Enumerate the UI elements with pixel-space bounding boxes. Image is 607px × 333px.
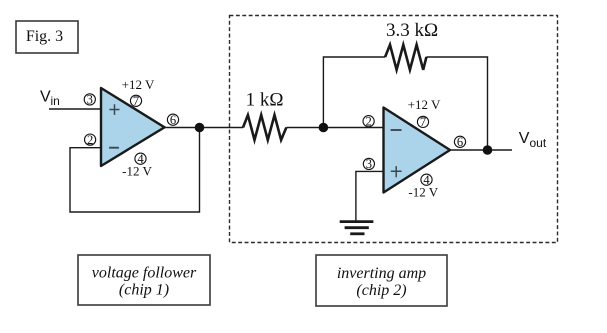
svg-text:3: 3 [87,93,93,107]
svg-text:+12 V: +12 V [408,97,441,112]
svg-text:voltage follower: voltage follower [92,265,197,282]
svg-text:3.3 kΩ: 3.3 kΩ [386,20,438,41]
svg-text:+12 V: +12 V [122,77,155,92]
svg-text:1 kΩ: 1 kΩ [246,90,284,111]
svg-text:Fig. 3: Fig. 3 [26,28,63,45]
svg-text:6: 6 [170,113,176,127]
svg-text:6: 6 [457,135,463,149]
svg-text:-12 V: -12 V [122,164,152,179]
svg-text:V: V [40,89,51,106]
svg-text:out: out [530,136,547,150]
svg-text:in: in [51,94,60,108]
svg-text:inverting amp: inverting amp [337,265,426,282]
svg-text:3: 3 [366,157,372,171]
svg-text:-12 V: -12 V [408,184,438,199]
svg-text:(chip 2): (chip 2) [356,282,406,299]
svg-text:7: 7 [133,94,139,108]
svg-text:V: V [519,130,530,147]
svg-text:2: 2 [365,114,371,128]
svg-text:7: 7 [420,115,426,129]
svg-text:2: 2 [87,133,93,147]
svg-text:(chip 1): (chip 1) [119,282,169,299]
